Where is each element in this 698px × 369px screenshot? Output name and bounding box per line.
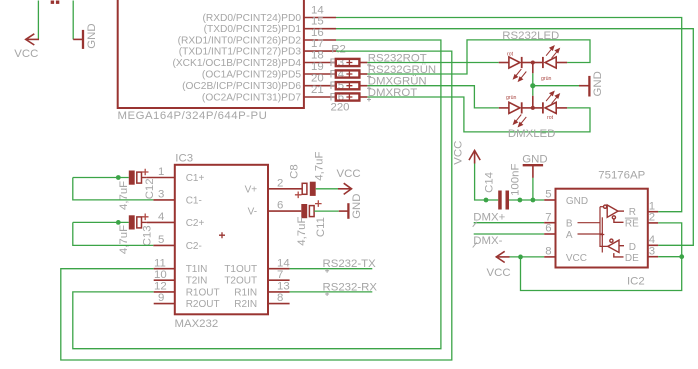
wire PD3 to MAX232 T1IN (61, 51, 452, 360)
svg-text:12: 12 (154, 281, 167, 293)
svg-text:100nF: 100nF (510, 164, 522, 196)
wire C13 loop to pin5 (73, 222, 154, 245)
wire C14 to GND pin5 (509, 199, 544, 201)
pin VCC pin8 (544, 246, 587, 265)
svg-text:MAX232: MAX232 (175, 318, 219, 330)
svg-text:DMX-: DMX- (473, 235, 502, 247)
supply VCC (arrow left, pin8) (496, 251, 509, 262)
pin T1OUT pin14 (224, 257, 289, 275)
wire PD2 to MAX232 R1OUT (73, 40, 441, 349)
svg-text:MEGA164P/324P/644P-PU: MEGA164P/324P/644P-PU (118, 110, 268, 122)
svg-text:VCC: VCC (566, 253, 587, 264)
svg-text:VCC: VCC (337, 168, 361, 180)
svg-text:VCC: VCC (14, 48, 38, 60)
svg-text:14: 14 (311, 5, 324, 17)
wire net DMX- (474, 233, 545, 235)
svg-text:15: 15 (311, 16, 324, 28)
pin V- pin6 (248, 200, 302, 218)
pin PD7 pin21 (202, 84, 336, 103)
svg-text:3: 3 (158, 189, 164, 201)
svg-text:VCC: VCC (453, 141, 465, 165)
svg-text:75176AP: 75176AP (598, 170, 645, 182)
junction LED pair top (531, 61, 535, 65)
LED D3 (DMX gruen, anode left) (499, 102, 533, 113)
capacitor C14 (484, 164, 522, 210)
wire LED center to GND (533, 63, 579, 108)
pin R1OUT pin12 (154, 281, 220, 299)
junction DE node (679, 254, 684, 259)
wire GND stub top-left (72, 1, 74, 40)
pin T2OUT pin7 (224, 269, 289, 287)
pin C1+ pin1 (147, 166, 205, 184)
pin C1- pin3 (153, 189, 202, 207)
svg-text:B: B (566, 219, 573, 230)
ground GND (above C14) (523, 165, 543, 178)
LED D4 light arrows (546, 91, 559, 103)
svg-text:9: 9 (158, 292, 164, 304)
svg-text:6: 6 (277, 200, 283, 212)
svg-text:2: 2 (277, 177, 283, 189)
svg-text:RS232-TX: RS232-TX (323, 258, 377, 270)
svg-text:C11: C11 (315, 217, 327, 237)
svg-text:8: 8 (545, 246, 551, 258)
wire GND drop (532, 178, 534, 200)
pin B pin7 (544, 211, 573, 229)
svg-text:(OC2B/ICP/PCINT30)PD6: (OC2B/ICP/PCINT30)PD6 (182, 81, 301, 92)
pin R2OUT pin9 (154, 292, 220, 310)
wire net RS232-RX (290, 291, 373, 293)
svg-text:3: 3 (649, 245, 655, 257)
wire DE pin3 stub to node (658, 256, 682, 258)
wire net RS232ROT (367, 62, 498, 64)
svg-text:R1OUT: R1OUT (186, 287, 220, 298)
junction node LED mid (530, 83, 535, 88)
svg-text:C2+: C2+ (186, 218, 205, 229)
pin DE pin3 (648, 245, 658, 257)
svg-text:(RXD0/PCINT24)PD0: (RXD0/PCINT24)PD0 (202, 13, 301, 24)
svg-text:20: 20 (311, 73, 324, 85)
svg-text:DMXGRÜN: DMXGRÜN (368, 76, 427, 88)
svg-text:19: 19 (311, 61, 324, 73)
svg-text:C14: C14 (484, 172, 496, 193)
svg-text:IC2: IC2 (627, 276, 645, 288)
svg-text:grün: grün (506, 95, 516, 101)
svg-text:13: 13 (277, 281, 290, 293)
wire C12 loop to pin3 (73, 178, 154, 200)
pin PD5 pin19 (202, 61, 336, 80)
svg-text:grün: grün (541, 76, 551, 82)
svg-text:4,7uF: 4,7uF (313, 152, 325, 181)
LED D1 light arrows (513, 69, 526, 81)
svg-text:11: 11 (154, 257, 166, 269)
label RE with overline (625, 218, 639, 229)
svg-text:GND: GND (566, 196, 588, 207)
svg-text:4,7uF: 4,7uF (118, 225, 130, 254)
svg-text:RS232GRÜN: RS232GRÜN (368, 64, 436, 76)
wire VCC stub top-left (37, 1, 39, 40)
svg-text:DMX+: DMX+ (473, 212, 505, 224)
svg-text:GND: GND (86, 23, 98, 48)
svg-text:IC3: IC3 (175, 153, 193, 165)
pin C2- pin5 (153, 234, 202, 252)
pin R2IN pin8 (234, 292, 289, 310)
pin V+ pin2 (245, 177, 303, 195)
svg-text:5: 5 (158, 234, 164, 246)
svg-text:R2OUT: R2OUT (186, 299, 220, 310)
IC U1 MEGA164P box (clipped at top) (118, 0, 304, 108)
pin PD2 pin16 (178, 27, 336, 46)
junction LED pair bottom (531, 106, 535, 110)
svg-text:6: 6 (545, 223, 551, 235)
svg-text:21: 21 (311, 84, 324, 96)
75176 interior: receiver triangle (600, 205, 624, 222)
LED D3 light arrows (513, 115, 526, 127)
svg-text:17: 17 (311, 38, 324, 50)
svg-text:VCC: VCC (487, 267, 511, 279)
svg-text:14: 14 (277, 257, 290, 269)
pin PD3 pin17 (179, 38, 336, 57)
svg-text:220: 220 (331, 102, 350, 114)
capacitor C13 (73, 214, 154, 255)
svg-text:T1OUT: T1OUT (224, 264, 257, 275)
svg-text:V+: V+ (245, 184, 258, 195)
svg-text:T2IN: T2IN (186, 276, 208, 287)
svg-text:T1IN: T1IN (186, 264, 208, 275)
svg-text:4,7uF: 4,7uF (296, 217, 308, 246)
svg-text:R2: R2 (331, 43, 346, 55)
svg-text:V-: V- (248, 207, 257, 218)
svg-text:DMXLED: DMXLED (508, 128, 555, 140)
wire PD1 to 75176 D pin4 (336, 29, 693, 246)
supply VCC (arrow right) (338, 183, 352, 194)
svg-text:rot: rot (507, 52, 514, 58)
svg-text:(TXD0/PCINT25)PD1: (TXD0/PCINT25)PD1 (204, 24, 302, 35)
supply VCC (arrow up, C14) (469, 150, 480, 163)
svg-text:(RXD1/INT0/PCINT26)PD2: (RXD1/INT0/PCINT26)PD2 (178, 35, 302, 46)
svg-text:(TXD1/INT1/PCINT27)PD3: (TXD1/INT1/PCINT27)PD3 (179, 47, 302, 58)
pin C2+ pin4 (147, 211, 205, 229)
svg-text:R: R (629, 207, 636, 218)
svg-text:rot: rot (547, 115, 554, 121)
wire net RS232GRUN (367, 40, 590, 74)
junction C12 (116, 175, 121, 180)
junction VCC/DE loop (518, 255, 523, 260)
pin T2IN pin10 (154, 269, 208, 287)
75176 interior wiring (578, 207, 608, 253)
wire net DMXROT (367, 97, 590, 132)
svg-text:(OC1A/PCINT29)PD5: (OC1A/PCINT29)PD5 (202, 69, 301, 80)
pin D pin4 (648, 234, 658, 246)
svg-text:C1+: C1+ (186, 173, 205, 184)
svg-text:RS232-RX: RS232-RX (323, 281, 378, 293)
junction C14 left (484, 198, 489, 203)
LED D2 light arrows (546, 46, 559, 58)
svg-text:8: 8 (277, 292, 283, 304)
pin GND pin5 (544, 189, 588, 207)
pin PD1 pin15 (204, 16, 336, 35)
svg-text:7: 7 (545, 211, 551, 223)
pin R1IN pin13 (234, 281, 289, 299)
resistor R2A (330, 57, 368, 69)
svg-text:D: D (629, 242, 636, 253)
pin A pin6 (544, 223, 573, 241)
svg-text:18: 18 (311, 50, 324, 62)
junction C13 (116, 220, 121, 225)
svg-text:1: 1 (649, 200, 655, 212)
svg-text:RS232LED: RS232LED (502, 30, 559, 42)
svg-text:T2OUT: T2OUT (224, 276, 257, 287)
wire DE tie to VCC loop (521, 257, 682, 291)
svg-text:C12: C12 (144, 178, 156, 199)
svg-text:RS232ROT: RS232ROT (368, 52, 427, 64)
LED D4 (DMX rot, anode right) (533, 102, 567, 113)
wire net RS232-TX (290, 268, 373, 270)
svg-text:DMXROT: DMXROT (368, 87, 417, 99)
capacitor plates clipped at top edge (51, 1, 60, 4)
wire PD0 to 75176 R pin1 (336, 18, 682, 212)
svg-text:4: 4 (649, 234, 655, 246)
LED D1 (RS232 rot, anode left) (499, 57, 533, 68)
svg-text:5: 5 (545, 189, 551, 201)
svg-text:GND: GND (592, 71, 604, 96)
resistor R2B (330, 69, 368, 81)
svg-text:10: 10 (154, 269, 167, 281)
capacitor C11 (296, 200, 339, 245)
svg-text:C13: C13 (142, 225, 154, 246)
svg-text:RE: RE (625, 219, 639, 230)
pin PD0 pin14 (202, 5, 336, 24)
resistor R2C (330, 80, 368, 92)
75176 interior: driver triangle (608, 239, 624, 257)
capacitor C12 (73, 169, 156, 210)
supply symbol VCC (arrow left) (26, 34, 40, 45)
wire net DMXGRUN (367, 86, 498, 108)
pin T1IN pin11 (154, 257, 208, 275)
svg-text:2: 2 (649, 212, 655, 224)
svg-text:A: A (566, 230, 573, 241)
svg-text:GND: GND (351, 193, 363, 218)
svg-text:GND: GND (522, 154, 547, 166)
svg-text:(OC2A/PCINT31)PD7: (OC2A/PCINT31)PD7 (202, 92, 301, 103)
svg-text:7: 7 (277, 269, 283, 281)
svg-text:C8: C8 (289, 164, 301, 179)
svg-text:4: 4 (158, 211, 164, 223)
wire VCC to pin8 (510, 256, 545, 258)
wire net DMX+ (474, 222, 545, 224)
svg-text:R1IN: R1IN (234, 287, 257, 298)
ground GND (C11, rotated) (339, 203, 349, 219)
svg-text:C2-: C2- (186, 241, 202, 252)
pin R pin1 (648, 200, 658, 212)
pin PD6 pin20 (182, 73, 336, 92)
origin cross IC3 (219, 232, 225, 238)
svg-text:4,7uF: 4,7uF (118, 181, 130, 210)
svg-text:DE: DE (625, 253, 639, 264)
pin RE pin2 (648, 212, 658, 224)
IC IC3 MAX232 box (175, 165, 268, 314)
wire RE pin2 to DE node (658, 223, 682, 257)
wire VCC to pin5 row (475, 164, 499, 201)
ground GND (rotated) (73, 30, 83, 49)
pin PD4 pin18 (172, 50, 335, 69)
svg-text:R2IN: R2IN (234, 299, 257, 310)
svg-text:(XCK1/OC1B/PCINT28)PD4: (XCK1/OC1B/PCINT28)PD4 (172, 58, 301, 69)
ground GND (LED, rotated) (579, 76, 589, 97)
resistor R2D (330, 92, 368, 104)
svg-text:1: 1 (158, 166, 164, 178)
LED D2 (RS232 gruen, anode right) (533, 57, 567, 68)
junction GND drop (531, 198, 536, 203)
IC IC2 75176AP box (556, 189, 648, 268)
capacitor C8 (289, 152, 339, 199)
svg-text:C1-: C1- (186, 195, 202, 206)
junction mid (518, 198, 523, 203)
